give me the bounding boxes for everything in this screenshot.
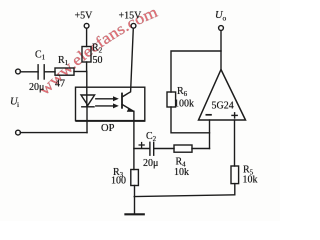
watermark www.elecfans.com	[36, 3, 161, 98]
svg-text:o: o	[223, 14, 227, 23]
svg-text:+15V: +15V	[119, 11, 143, 22]
feedback wire lower	[171, 107, 210, 133]
resistor R6	[167, 92, 176, 107]
wire R4 to inverting node	[192, 148, 210, 150]
wire C2 to R4	[154, 148, 174, 150]
label plus C2	[139, 142, 145, 148]
optocoupler OP box	[76, 87, 145, 120]
wire input to C1	[20, 71, 38, 73]
label plus input	[231, 112, 238, 119]
wire node A to LED anode	[86, 72, 88, 107]
resistor R5	[231, 166, 239, 184]
wire R3 to ground	[134, 186, 136, 214]
svg-text:i: i	[17, 100, 19, 109]
label minus input	[206, 114, 212, 116]
wire R1 to node A	[74, 71, 87, 73]
svg-text:10k: 10k	[243, 175, 258, 186]
svg-text:20μ: 20μ	[29, 82, 44, 93]
svg-text:47: 47	[55, 79, 65, 90]
svg-text:100k: 100k	[174, 99, 194, 110]
+15V terminal	[131, 23, 136, 28]
output terminal Uo	[219, 26, 224, 31]
feedback wire upper	[171, 51, 221, 92]
phototransistor base bar	[121, 94, 123, 108]
ground	[125, 213, 143, 215]
coupling arrow 2	[96, 105, 115, 107]
svg-text:100: 100	[111, 176, 126, 187]
wire inverting input	[209, 120, 211, 149]
phototransistor emitter with arrow	[122, 104, 134, 111]
input terminal upper	[16, 69, 21, 74]
ground rail	[134, 195, 235, 197]
wire lower input	[20, 132, 87, 134]
resistor R4	[174, 145, 192, 152]
svg-text:+5V: +5V	[75, 11, 94, 22]
svg-text:OP: OP	[101, 123, 115, 134]
resistor R2	[82, 47, 91, 63]
LED diode in OP	[81, 95, 95, 105]
resistor R1	[55, 68, 74, 75]
wire emitter node to C2	[134, 148, 149, 150]
svg-text:5G24: 5G24	[212, 101, 234, 112]
resistor R3	[131, 170, 139, 186]
+5V terminal	[84, 23, 89, 28]
svg-text:20μ: 20μ	[143, 158, 158, 169]
wire R5 to ground rail	[234, 184, 236, 195]
capacitor C2	[149, 142, 151, 155]
svg-text:10k: 10k	[174, 167, 189, 178]
wire +5V to R2	[86, 28, 88, 46]
coupling arrow 1	[96, 98, 115, 100]
svg-text:50: 50	[93, 55, 103, 66]
wire non-inverting input	[234, 120, 236, 166]
wire R2 to node A	[86, 62, 88, 72]
capacitor C1	[37, 65, 39, 79]
wire C1 to R1	[44, 71, 55, 73]
LED cathode wire	[86, 107, 88, 133]
emitter wire down	[133, 111, 135, 169]
phototransistor collector	[122, 28, 133, 97]
op-amp U1 5G24	[199, 70, 246, 121]
input terminal lower	[16, 130, 21, 135]
output wire	[220, 30, 222, 69]
